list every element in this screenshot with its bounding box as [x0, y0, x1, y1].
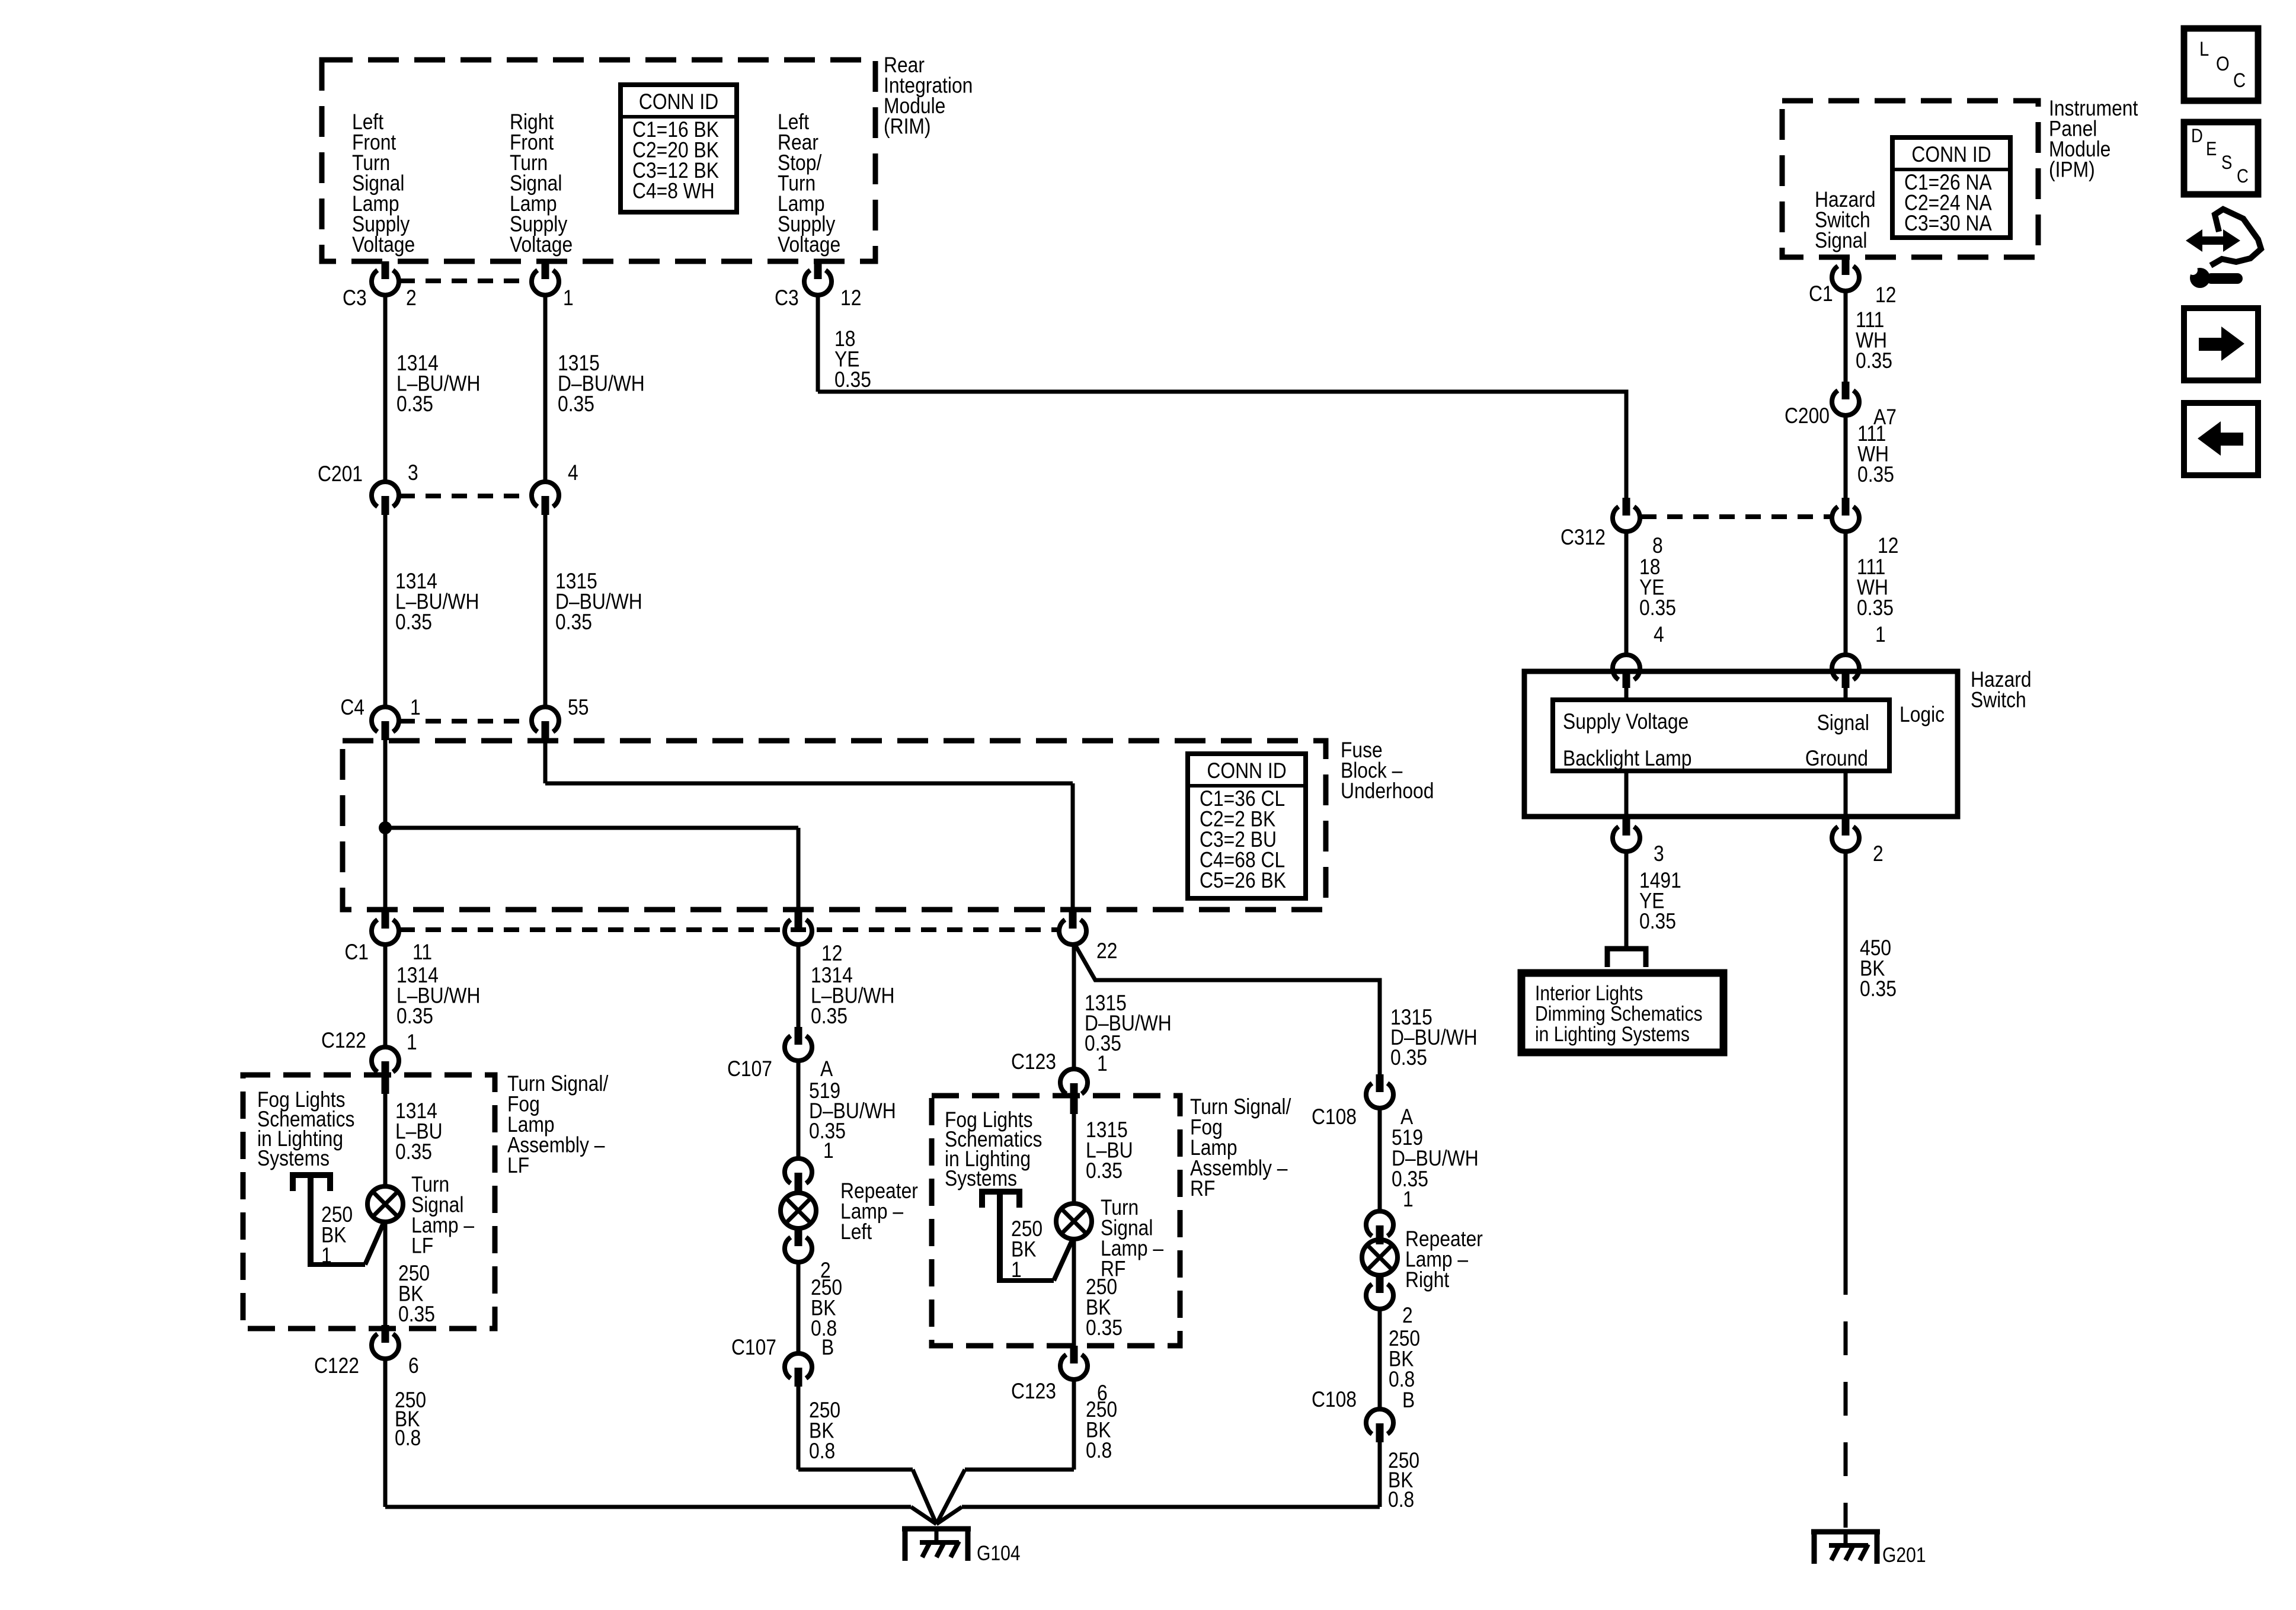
svg-text:Systems: Systems — [257, 1147, 330, 1171]
svg-text:1: 1 — [563, 286, 574, 311]
svg-text:0.35: 0.35 — [396, 1004, 433, 1029]
svg-text:12: 12 — [840, 286, 861, 311]
svg-text:Supply Voltage: Supply Voltage — [1563, 710, 1689, 734]
svg-text:Switch: Switch — [1971, 688, 2026, 712]
svg-text:0.35: 0.35 — [1860, 977, 1897, 1001]
svg-text:(IPM): (IPM) — [2049, 158, 2095, 182]
svg-text:(RIM): (RIM) — [884, 114, 931, 139]
svg-text:0.35: 0.35 — [395, 1140, 432, 1164]
svg-text:Underhood: Underhood — [1341, 779, 1434, 804]
svg-text:4: 4 — [568, 461, 578, 485]
svg-text:Voltage: Voltage — [778, 233, 840, 257]
svg-text:C122: C122 — [321, 1029, 366, 1053]
svg-text:C1: C1 — [1809, 282, 1833, 306]
svg-text:O: O — [2216, 52, 2230, 75]
svg-text:0.35: 0.35 — [395, 610, 432, 635]
svg-text:RF: RF — [1190, 1177, 1215, 1201]
svg-text:C3: C3 — [343, 286, 367, 311]
svg-text:1: 1 — [1011, 1258, 1022, 1282]
svg-text:0.35: 0.35 — [1086, 1316, 1123, 1340]
svg-text:0.8: 0.8 — [395, 1426, 421, 1451]
svg-text:C107: C107 — [731, 1336, 776, 1360]
svg-text:1: 1 — [1875, 623, 1886, 647]
svg-text:C200: C200 — [1785, 404, 1830, 428]
svg-text:1: 1 — [1097, 1052, 1108, 1076]
svg-text:Left: Left — [840, 1220, 872, 1244]
svg-text:0.35: 0.35 — [1390, 1046, 1427, 1070]
svg-text:Logic: Logic — [1900, 703, 1945, 727]
svg-text:C107: C107 — [727, 1057, 772, 1081]
svg-text:Voltage: Voltage — [510, 233, 573, 257]
svg-text:Ground: Ground — [1805, 747, 1868, 771]
svg-text:LF: LF — [507, 1154, 529, 1178]
svg-text:C201: C201 — [318, 462, 363, 486]
svg-text:C3=30 NA: C3=30 NA — [1904, 212, 1992, 236]
svg-text:Signal: Signal — [1817, 711, 1869, 735]
svg-text:C: C — [2233, 69, 2246, 92]
svg-text:G104: G104 — [977, 1541, 1021, 1565]
svg-text:0.35: 0.35 — [396, 392, 433, 417]
svg-text:0.35: 0.35 — [398, 1302, 435, 1327]
svg-text:C: C — [2237, 166, 2249, 187]
svg-text:C108: C108 — [1312, 1388, 1357, 1412]
svg-text:C122: C122 — [314, 1354, 359, 1378]
svg-text:0.35: 0.35 — [555, 610, 592, 635]
svg-text:B: B — [1402, 1388, 1415, 1413]
svg-text:C4=8 WH: C4=8 WH — [632, 179, 715, 203]
svg-text:1: 1 — [321, 1244, 332, 1268]
svg-text:LF: LF — [411, 1234, 433, 1258]
svg-text:C123: C123 — [1011, 1050, 1056, 1074]
svg-text:1: 1 — [407, 1030, 417, 1055]
svg-text:0.8: 0.8 — [1086, 1439, 1112, 1463]
svg-text:E: E — [2206, 139, 2217, 159]
svg-text:B: B — [821, 1336, 834, 1360]
svg-text:Signal: Signal — [1815, 229, 1867, 253]
svg-text:A: A — [820, 1057, 833, 1081]
svg-text:L: L — [2199, 37, 2209, 60]
svg-text:6: 6 — [408, 1354, 419, 1378]
svg-text:0.35: 0.35 — [834, 368, 871, 392]
svg-text:0.35: 0.35 — [811, 1004, 848, 1029]
svg-text:0.35: 0.35 — [1639, 596, 1676, 620]
svg-text:0.8: 0.8 — [809, 1439, 835, 1464]
svg-text:C4: C4 — [340, 696, 364, 720]
svg-text:Backlight Lamp: Backlight Lamp — [1563, 747, 1692, 771]
svg-text:D: D — [2191, 126, 2203, 146]
svg-text:11: 11 — [412, 940, 432, 965]
svg-text:22: 22 — [1096, 939, 1117, 964]
svg-text:G201: G201 — [1882, 1543, 1926, 1567]
svg-text:8: 8 — [1652, 534, 1663, 558]
svg-text:12: 12 — [1875, 283, 1896, 308]
svg-text:Voltage: Voltage — [352, 233, 415, 257]
svg-text:0.35: 0.35 — [1639, 910, 1676, 934]
svg-text:2: 2 — [1873, 842, 1884, 866]
svg-text:12: 12 — [1878, 534, 1898, 558]
svg-text:0.35: 0.35 — [558, 392, 594, 417]
svg-text:Systems: Systems — [945, 1167, 1017, 1191]
svg-text:3: 3 — [408, 461, 418, 485]
svg-text:C1: C1 — [344, 940, 369, 965]
svg-text:1: 1 — [823, 1139, 834, 1163]
svg-text:CONN ID: CONN ID — [639, 90, 718, 114]
svg-text:C5=26 BK: C5=26 BK — [1200, 869, 1286, 893]
svg-text:CONN ID: CONN ID — [1207, 759, 1286, 783]
svg-text:0.8: 0.8 — [1388, 1488, 1414, 1512]
svg-text:in Lighting Systems: in Lighting Systems — [1535, 1022, 1690, 1046]
svg-text:1: 1 — [410, 696, 421, 720]
svg-text:1: 1 — [1403, 1188, 1414, 1212]
svg-text:CONN ID: CONN ID — [1911, 143, 1991, 167]
svg-text:S: S — [2221, 152, 2232, 173]
svg-text:C312: C312 — [1560, 526, 1606, 550]
svg-text:12: 12 — [821, 942, 842, 966]
svg-text:C108: C108 — [1312, 1105, 1357, 1129]
svg-text:C3: C3 — [775, 286, 799, 311]
svg-text:0.35: 0.35 — [1857, 596, 1894, 620]
svg-text:0.35: 0.35 — [1086, 1159, 1123, 1183]
svg-text:3: 3 — [1654, 842, 1664, 866]
svg-text:0.35: 0.35 — [1856, 349, 1892, 373]
svg-text:4: 4 — [1654, 623, 1664, 647]
svg-text:2: 2 — [406, 286, 417, 311]
svg-text:2: 2 — [1402, 1304, 1413, 1328]
svg-text:C123: C123 — [1011, 1379, 1056, 1404]
svg-text:0.35: 0.35 — [1857, 463, 1894, 487]
svg-text:Right: Right — [1405, 1268, 1450, 1292]
svg-text:55: 55 — [568, 696, 589, 720]
